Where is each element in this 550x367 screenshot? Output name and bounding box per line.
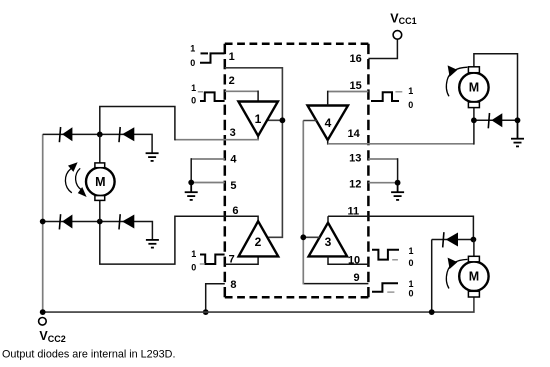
svg-text:0: 0 xyxy=(191,262,196,272)
motor M3 right bottom xyxy=(459,256,488,297)
diode D2 left top inner xyxy=(119,127,134,142)
svg-text:2: 2 xyxy=(255,235,262,249)
wire pin 3 route to motor top xyxy=(100,107,175,141)
ground pins 4-5 xyxy=(185,183,198,200)
wire pin 13 ground stub xyxy=(368,158,397,160)
node junction right top motor bottom xyxy=(471,117,477,123)
diode D1 left top outer xyxy=(59,127,72,142)
waveform pin 9 low reference dash xyxy=(387,291,394,293)
svg-text:12: 12 xyxy=(349,179,361,191)
node junction pins 12-13 xyxy=(395,180,401,186)
waveform input pin 10 inverted pulse xyxy=(372,250,399,260)
ground pins 12-13 xyxy=(391,183,404,200)
wire left supply rail from VCC2 xyxy=(42,134,44,312)
waveform input pin 7 inverted pulse xyxy=(200,255,225,265)
waveform pin 2 high reference dash xyxy=(198,91,203,93)
diode D3 left bottom outer xyxy=(59,214,72,229)
svg-text:M: M xyxy=(95,175,105,189)
wire pin 8 to VCC2 rail xyxy=(206,284,225,312)
svg-text:M: M xyxy=(469,81,479,95)
waveform input pin 1 step xyxy=(200,53,225,62)
ground under diode D2 xyxy=(146,153,159,161)
svg-text:14: 14 xyxy=(348,128,361,140)
ground right top xyxy=(511,120,524,146)
wire pin 10 input to driver 3 xyxy=(328,256,370,264)
wire pin 1 enable net to drivers 1 and 2 xyxy=(225,68,283,238)
svg-text:4: 4 xyxy=(230,154,237,166)
waveform input pin 2 pulse xyxy=(200,92,225,101)
svg-text:1: 1 xyxy=(255,112,262,126)
svg-text:CC1: CC1 xyxy=(399,16,417,26)
svg-text:0: 0 xyxy=(190,58,195,68)
node junction motor bottom xyxy=(97,219,103,225)
svg-text:0: 0 xyxy=(408,100,413,110)
wire pin 6 output of driver 2 to motor bottom xyxy=(100,216,258,264)
waveform pin 10 low reference dash xyxy=(392,259,398,261)
diode D5 right top xyxy=(488,113,502,128)
wire right bottom motor top lead xyxy=(473,240,475,257)
wire pin 5 ground stub xyxy=(191,182,225,184)
rotation arrow motor M2 xyxy=(446,65,467,96)
IC package dashed outline U1 L293D xyxy=(225,44,369,297)
svg-text:1: 1 xyxy=(190,44,195,54)
waveform input pin 9 step xyxy=(372,283,398,291)
svg-text:3: 3 xyxy=(230,127,236,139)
svg-text:Output diodes are internal in: Output diodes are internal in L293D. xyxy=(2,349,175,361)
wire left bottom diode rail xyxy=(43,222,153,240)
wire pin 11 output of driver 3 to right bottom motor xyxy=(328,216,473,239)
node junction right bottom motor top xyxy=(471,237,477,243)
waveform input pin 15 pulse xyxy=(371,92,399,101)
svg-text:2: 2 xyxy=(229,75,235,87)
wire pin 2 input to driver 1 xyxy=(225,90,258,92)
ground under diode D4 xyxy=(146,240,159,248)
svg-text:1: 1 xyxy=(408,86,413,96)
svg-text:13: 13 xyxy=(349,153,361,165)
svg-text:5: 5 xyxy=(230,180,236,192)
wire right top motor bottom lead xyxy=(473,108,475,121)
diode D6 right bottom xyxy=(443,232,458,247)
svg-text:M: M xyxy=(469,270,479,284)
op-amp driver 1 xyxy=(238,102,278,136)
wire pin 3 output of driver 1 xyxy=(257,136,259,141)
wire left top diode rail xyxy=(43,134,152,153)
node junction pin 8 on VCC2 rail xyxy=(203,309,209,315)
node junction pins 4-5 xyxy=(188,180,194,186)
node junction VCC2 rail left xyxy=(40,309,46,315)
node junction enable 1,2EN xyxy=(280,117,286,123)
wire pin 15 input to driver 4 xyxy=(328,91,369,93)
wire pin 14 output of driver 4 to right top motor xyxy=(327,140,329,145)
svg-text:0: 0 xyxy=(191,96,196,106)
svg-text:3: 3 xyxy=(325,235,332,249)
svg-text:4: 4 xyxy=(325,116,332,130)
rotation arrow motor M3 xyxy=(446,258,467,289)
terminal VCC2 xyxy=(39,318,47,326)
wire VCC2 rail bottom xyxy=(43,297,474,312)
wire pin 4 ground stub xyxy=(191,158,225,160)
op-amp driver 2 xyxy=(239,221,279,256)
svg-text:6: 6 xyxy=(232,205,238,217)
svg-text:1: 1 xyxy=(409,246,414,256)
motor M1 left xyxy=(86,163,115,201)
svg-text:0: 0 xyxy=(409,258,414,268)
node junction right bottom on VCC2 rail xyxy=(429,309,435,315)
wire right bottom diode rail xyxy=(432,239,474,241)
svg-text:1: 1 xyxy=(191,83,196,93)
node junction rail left bottom xyxy=(40,219,46,225)
wire right bottom left vertical to VCC2 rail xyxy=(431,240,433,313)
terminal VCC1 xyxy=(393,31,402,40)
rotation arrows motor M1 bidirectional xyxy=(65,162,86,197)
svg-text:7: 7 xyxy=(229,254,235,266)
op-amp driver 4 xyxy=(308,106,349,141)
wire pin 16 to VCC1 xyxy=(368,39,397,58)
node junction right top ground xyxy=(515,117,521,123)
svg-text:16: 16 xyxy=(350,53,362,65)
wire pin 12 ground stub xyxy=(368,182,397,184)
op-amp driver 3 xyxy=(309,223,348,257)
wire pin 9 enable net to drivers 3 and 4 xyxy=(303,283,368,285)
node junction enable 3,4EN xyxy=(300,234,306,240)
svg-text:0: 0 xyxy=(409,288,414,298)
diode D4 left bottom inner xyxy=(119,214,134,229)
svg-text:15: 15 xyxy=(350,80,362,92)
node junction motor top xyxy=(97,132,103,138)
waveform pin 1 high reference dash xyxy=(201,52,209,54)
wire right top motor top lead to ground rail xyxy=(474,54,518,121)
motor M2 right top xyxy=(459,67,488,108)
svg-text:8: 8 xyxy=(230,279,236,291)
waveform pin 15 high reference dash xyxy=(395,91,402,93)
svg-text:11: 11 xyxy=(348,206,360,218)
waveform pin 7 low reference dash xyxy=(200,263,205,265)
wire right top diode rail xyxy=(474,119,518,121)
svg-text:1: 1 xyxy=(191,249,196,259)
svg-text:9: 9 xyxy=(353,272,359,284)
wire left motor leads xyxy=(99,134,101,221)
wire pin 7 input to driver 2 xyxy=(225,256,258,264)
svg-text:CC2: CC2 xyxy=(48,334,66,344)
svg-text:1: 1 xyxy=(229,51,235,63)
svg-text:10: 10 xyxy=(348,254,360,266)
